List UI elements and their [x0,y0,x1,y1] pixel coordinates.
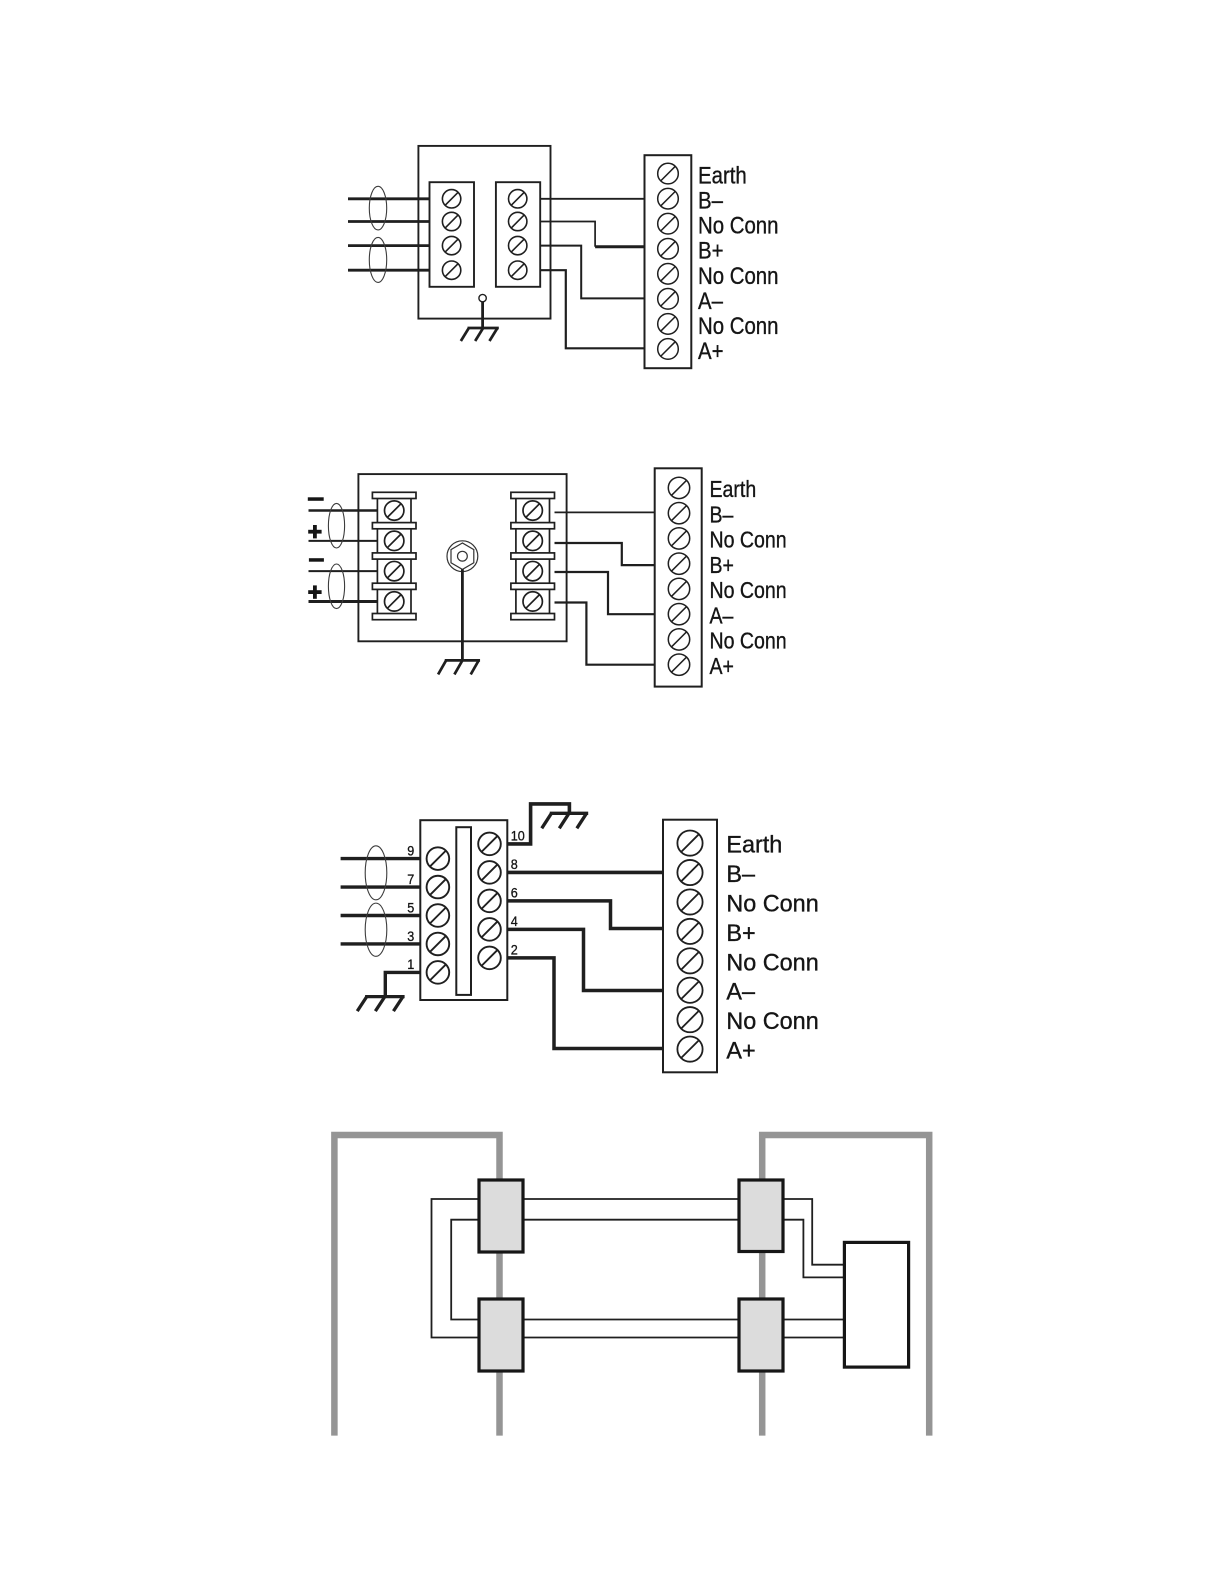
svg-text:A–: A– [698,287,724,314]
svg-text:B–: B– [726,862,755,888]
svg-text:B+: B+ [698,237,724,264]
svg-text:10: 10 [511,828,525,844]
svg-text:B–: B– [698,187,724,214]
svg-text:3: 3 [407,928,414,944]
svg-text:7: 7 [407,871,414,887]
svg-text:Earth: Earth [710,477,757,503]
svg-text:A–: A– [726,979,755,1005]
svg-text:No Conn: No Conn [698,312,779,339]
svg-text:No Conn: No Conn [698,212,779,239]
svg-text:A–: A– [710,603,734,629]
svg-text:2: 2 [511,942,518,958]
svg-text:5: 5 [407,900,414,916]
svg-text:No Conn: No Conn [710,578,787,604]
svg-text:No Conn: No Conn [710,527,787,553]
svg-text:A+: A+ [710,653,734,679]
svg-text:No Conn: No Conn [698,262,779,289]
svg-text:No Conn: No Conn [726,891,818,917]
svg-text:Earth: Earth [698,162,747,189]
svg-text:4: 4 [511,914,518,930]
svg-text:A+: A+ [698,337,724,364]
svg-text:B+: B+ [710,552,734,578]
svg-text:No Conn: No Conn [726,1009,818,1035]
svg-text:6: 6 [511,885,518,901]
svg-text:B–: B– [710,502,734,528]
svg-text:1: 1 [407,957,414,973]
svg-text:8: 8 [511,857,518,873]
svg-text:Earth: Earth [726,832,782,858]
svg-text:No Conn: No Conn [710,628,787,654]
svg-text:A+: A+ [726,1038,755,1064]
svg-text:No Conn: No Conn [726,950,818,976]
svg-text:9: 9 [407,843,414,859]
svg-text:B+: B+ [726,921,755,947]
